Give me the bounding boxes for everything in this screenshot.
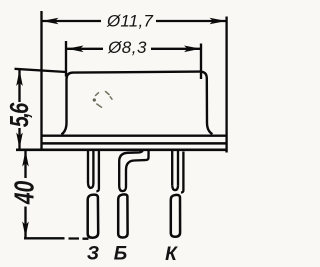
dim line Ø8.3 right segment <box>151 48 201 50</box>
lead 2 elbow inner contour <box>126 150 149 187</box>
flange bottom edge (extended left as 40-dim extension) <box>16 149 227 152</box>
extension line top of 5,6 (to can top) <box>15 69 67 72</box>
faint marking smudge on can <box>93 92 112 108</box>
dim line Ø11.7 right segment <box>156 20 227 22</box>
background paper <box>0 0 245 267</box>
lead 1 upper segment break arc <box>88 183 93 188</box>
arrowhead Ø8.3 right <box>184 46 201 53</box>
dim line 40 vertical <box>24 150 26 178</box>
extension line right Ø8.3 <box>200 44 202 80</box>
lead 1 (З) lower segment <box>88 195 99 238</box>
lead 3 (К) upper segment left line <box>171 151 173 185</box>
arrowhead Ø8.3 left <box>67 46 84 53</box>
svg-text:Б: Б <box>114 244 127 265</box>
lead 2 (Б) elbow outer contour <box>119 150 143 187</box>
lead 3 upper segment break arc <box>172 185 178 190</box>
lead 1 upper segment outer line <box>96 151 99 191</box>
lead 2 upper segment break arc <box>119 187 126 192</box>
dim line Ø8.3 left segment <box>66 48 103 50</box>
arrowhead 40 down <box>22 222 29 238</box>
arrowhead 5,6 up <box>16 70 23 86</box>
lead 1 upper segment right line of tube <box>92 151 94 184</box>
transistor can body outline <box>62 72 213 135</box>
lead 2 (Б) lower segment <box>118 194 127 237</box>
flange top edge <box>43 134 226 136</box>
arrowhead 40 up <box>22 151 29 167</box>
arrowhead 5,6 down <box>16 133 23 149</box>
svg-text:40: 40 <box>10 181 41 205</box>
lead 3 (К) lower segment <box>171 195 180 237</box>
extension line left Ø11.7 / flange left edge <box>40 11 42 151</box>
lead 3 upper segment outer line <box>181 152 183 193</box>
svg-text:5,6: 5,6 <box>5 102 34 128</box>
extension line bottom of 40 (lead ends) <box>24 237 89 240</box>
svg-text:Ø8,3: Ø8,3 <box>107 38 147 57</box>
dim line Ø11.7 left segment <box>42 20 102 22</box>
flange middle line <box>43 142 226 144</box>
svg-text:З: З <box>87 244 99 265</box>
lead 3 upper segment right line of tube <box>177 151 179 186</box>
arrowhead Ø11.7 left <box>42 18 59 25</box>
svg-text:Ø11,7: Ø11,7 <box>106 11 153 30</box>
extension line right Ø11.7 / flange right edge <box>225 17 227 153</box>
dim line 5,6 vertical <box>18 70 20 102</box>
extension line left Ø8.3 <box>65 41 67 77</box>
lead 1 (З) upper segment left line <box>87 151 89 183</box>
svg-text:К: К <box>165 244 178 265</box>
arrowhead Ø11.7 right <box>210 18 227 25</box>
